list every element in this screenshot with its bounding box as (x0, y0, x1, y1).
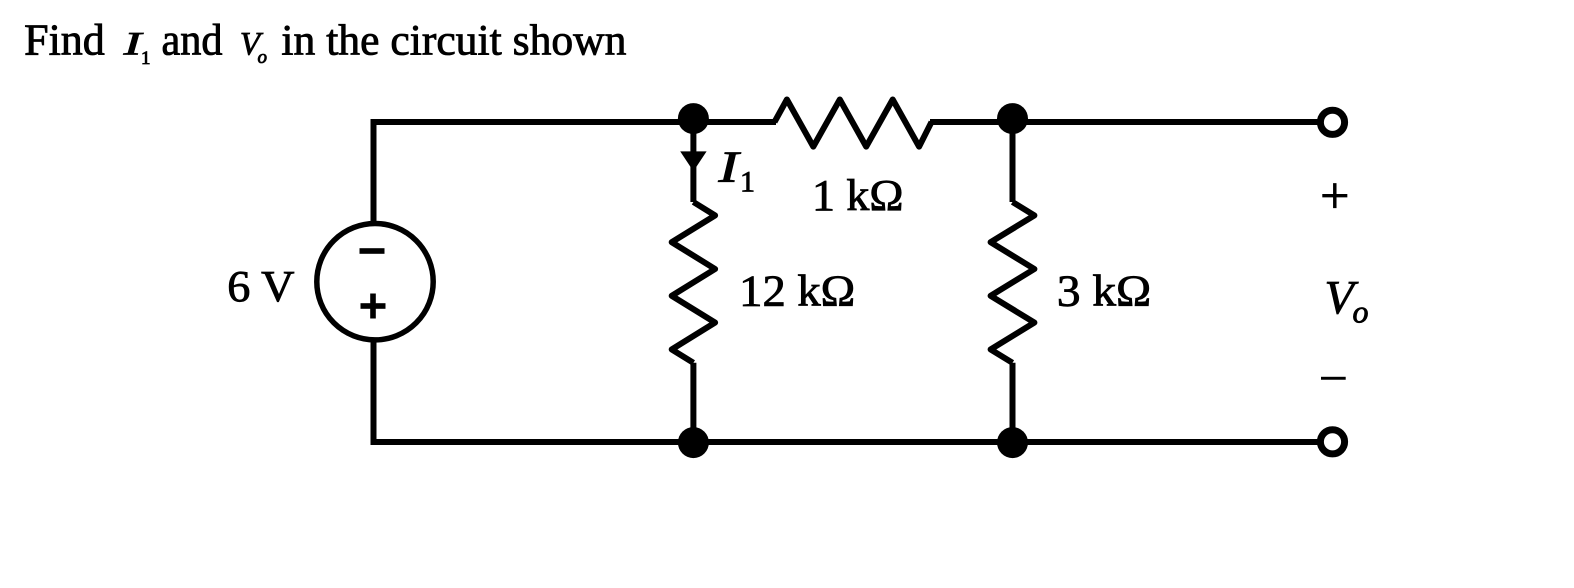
svg-text:Find: Find (24, 16, 105, 65)
label I1 (717, 142, 755, 198)
svg-text:6 V: 6 V (227, 262, 294, 311)
current arrow I1 stem (690, 122, 696, 202)
svg-text:I: I (717, 142, 742, 191)
wire top right segment (1 kOhm to node B to terminal) (930, 119, 1320, 125)
voltage source minus sign (360, 248, 385, 254)
terminal bottom-right (open circle) (1320, 430, 1344, 454)
svg-text:o: o (1353, 294, 1369, 330)
svg-text:12 kΩ: 12 kΩ (739, 267, 855, 316)
voltage source plus sign (361, 294, 386, 319)
current arrow I1 head (680, 151, 706, 171)
wire top left segment (source to node A to 1 kOhm) (374, 119, 777, 125)
svg-text:1 kΩ: 1 kΩ (812, 171, 904, 220)
wire 12 kOhm lower lead (690, 363, 696, 445)
wire left vertical lower (371, 339, 377, 445)
svg-text:3 kΩ: 3 kΩ (1057, 267, 1151, 316)
svg-text:o: o (258, 47, 268, 68)
node D bottom-right junction dot (997, 427, 1028, 458)
node C bottom-left junction dot (678, 427, 709, 458)
resistor 1 kOhm (horizontal zigzag) (775, 100, 932, 147)
wire 3 kOhm upper lead (1010, 122, 1016, 202)
node B top-right junction dot (997, 103, 1028, 134)
wire 3 kOhm lower lead (1010, 363, 1016, 445)
terminal top-right (open circle) (1320, 110, 1344, 134)
resistor 12 kOhm (vertical zigzag) (672, 202, 715, 363)
wire bottom (374, 439, 1321, 445)
node A top-left junction dot (678, 103, 709, 134)
svg-text:+: + (1320, 168, 1349, 225)
voltage source VS 6 V circle (317, 224, 433, 340)
label Vo (1325, 272, 1369, 330)
wire left vertical upper (371, 119, 377, 226)
svg-text:and: and (162, 16, 223, 65)
svg-text:in the circuit shown: in the circuit shown (281, 17, 626, 65)
label minus (output polarity) (1321, 377, 1346, 380)
resistor 3 kOhm (vertical zigzag) (991, 202, 1035, 363)
svg-text:1: 1 (740, 166, 755, 199)
svg-text:1: 1 (141, 48, 151, 69)
title text (24, 16, 627, 69)
